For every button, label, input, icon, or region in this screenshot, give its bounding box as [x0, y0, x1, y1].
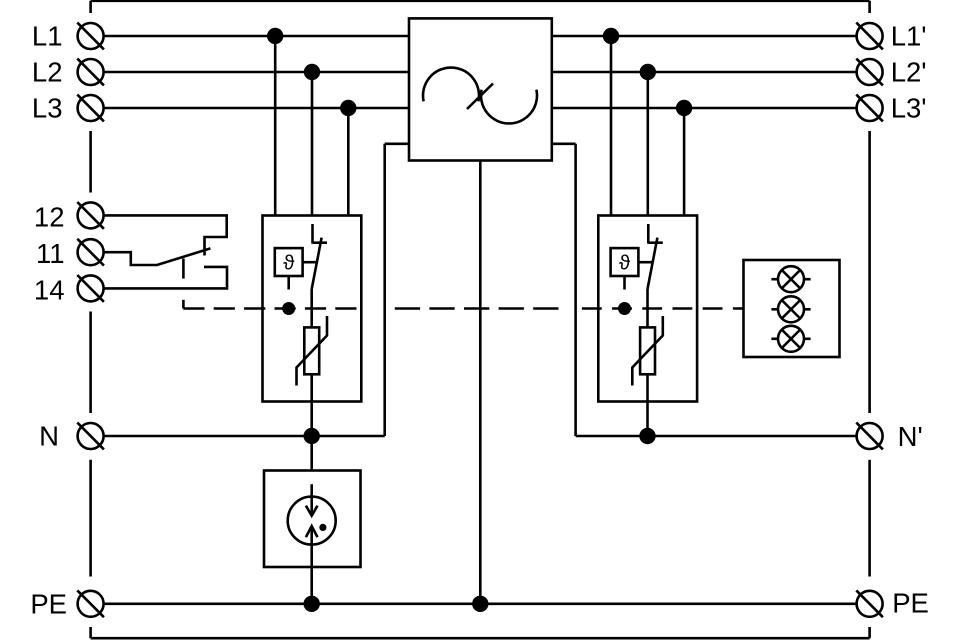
svg-text:12: 12: [34, 201, 65, 232]
svg-text:ϑ: ϑ: [619, 252, 631, 275]
svg-text:L1: L1: [32, 21, 63, 52]
svg-text:PE: PE: [30, 589, 67, 620]
svg-text:N': N': [898, 421, 923, 452]
svg-text:11: 11: [36, 238, 65, 269]
svg-text:ϑ: ϑ: [283, 252, 295, 275]
svg-text:L1': L1': [891, 21, 927, 52]
svg-text:14: 14: [34, 275, 65, 306]
svg-text:N: N: [39, 421, 59, 452]
svg-text:L3': L3': [891, 93, 927, 124]
svg-text:L2': L2': [891, 57, 927, 88]
svg-text:PE: PE: [892, 588, 929, 619]
svg-text:L3: L3: [32, 93, 63, 124]
svg-text:L2: L2: [32, 57, 63, 88]
